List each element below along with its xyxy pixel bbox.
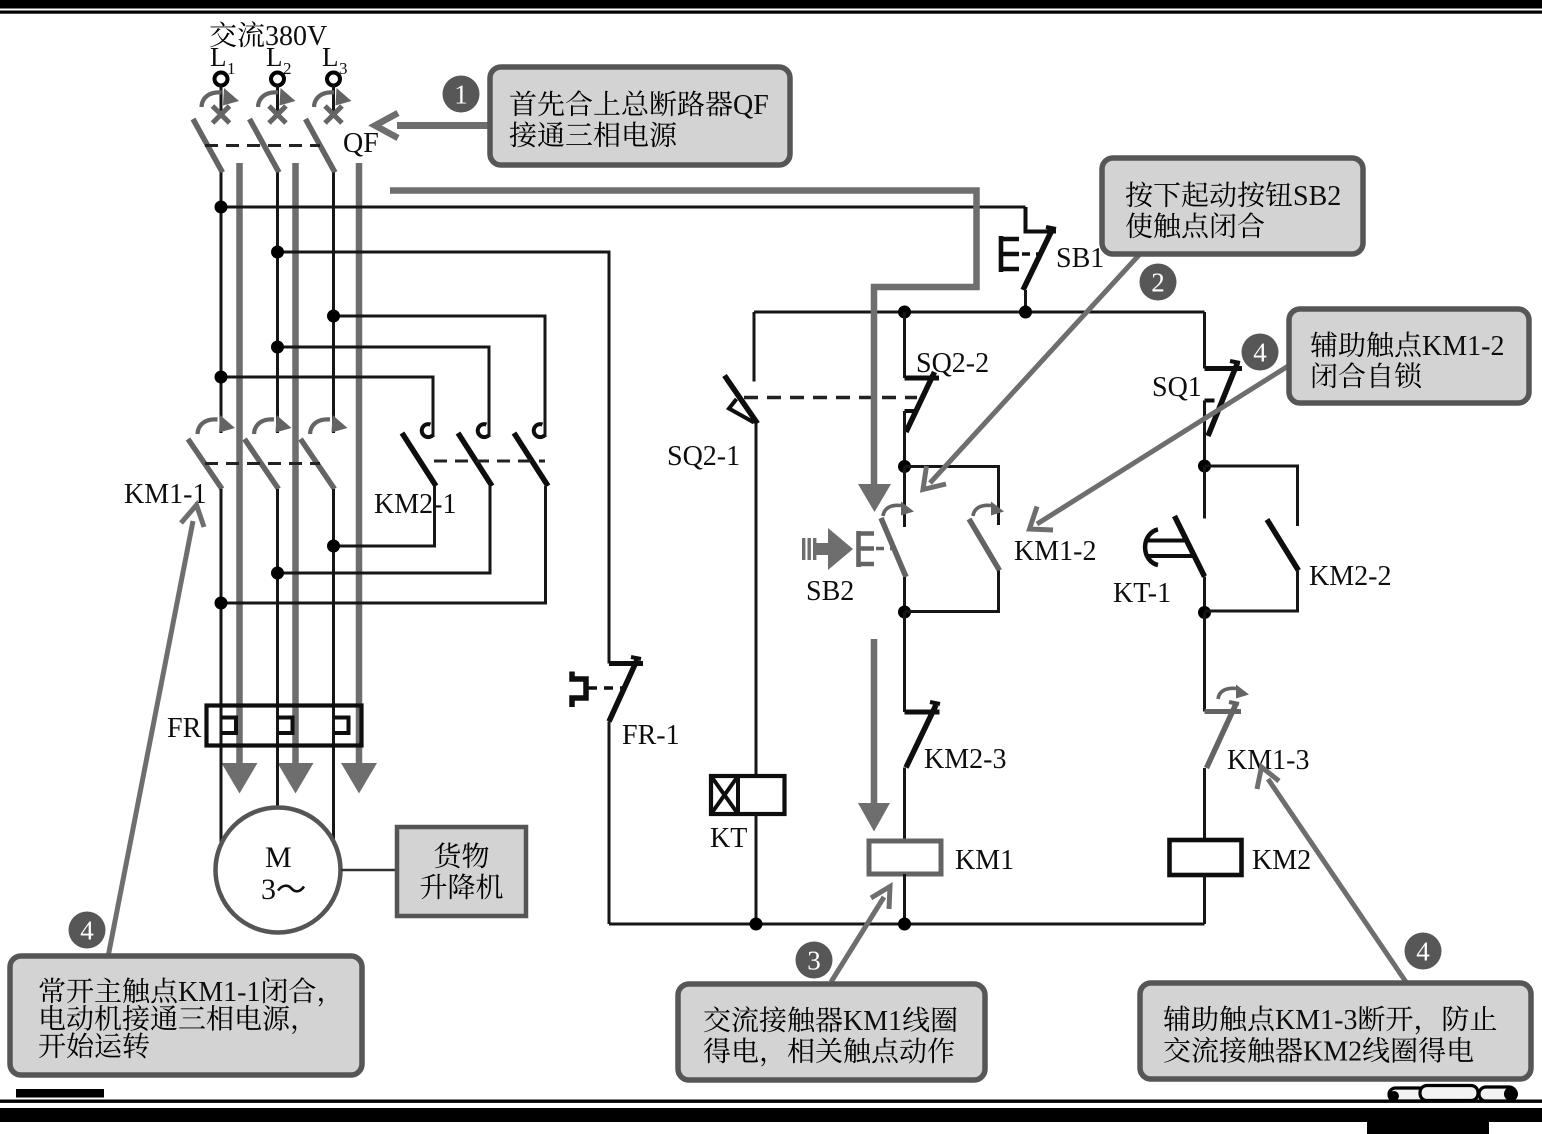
- label badge number 2 callout2: [1140, 264, 1177, 301]
- pushbutton SB2 press arrow: [802, 528, 853, 570]
- wire : top black bar: [0, 0, 1542, 9]
- wire : bottom rules and bar: [16, 1089, 104, 1098]
- svg-text:L: L: [322, 42, 339, 72]
- callout box 3 KM1 coil: [678, 984, 985, 1080]
- node : AC 380V supply label: [210, 21, 327, 52]
- wire grey highlighted current path x=295.5: [292, 163, 299, 766]
- wire L2 tap to FR-1 branch: [278, 252, 610, 664]
- wire grey highlighted current path x=239.5: [236, 163, 243, 766]
- svg-text:L: L: [210, 42, 227, 72]
- svg-text:3: 3: [807, 946, 821, 976]
- relay FR heater element x=277.5: [278, 718, 293, 734]
- node bottom rail KT branch: [750, 918, 763, 931]
- label badge number 1 callout1: [443, 76, 480, 113]
- wire L3 tap to KM2-1 pole3: [334, 316, 546, 437]
- svg-text:4: 4: [80, 916, 94, 946]
- svg-text:QF: QF: [733, 90, 769, 121]
- limit switch SQ2-1 (NO wedge): [725, 376, 758, 424]
- svg-text:SQ1: SQ1: [1152, 372, 1202, 403]
- arrow callout4-right to KM1-3: [1268, 779, 1406, 982]
- wire L1 terminal to QF: [220, 86, 223, 119]
- svg-text:KT-1: KT-1: [1113, 578, 1171, 609]
- relay FR heater element x=221: [221, 718, 236, 734]
- wire SQ2-1 to KT coil: [755, 424, 758, 777]
- svg-text:QF: QF: [343, 128, 379, 159]
- node rail junction SB1: [1019, 306, 1032, 319]
- svg-text:KM2: KM2: [1303, 1037, 1362, 1068]
- wire phase line below QF x=333.5: [332, 173, 335, 434]
- node junction L2 control tap: [271, 246, 284, 259]
- svg-text:KM2-2: KM2-2: [1309, 561, 1391, 592]
- decorative publisher logo: [1389, 1086, 1518, 1102]
- arrow callout1 to QF: [397, 122, 489, 129]
- coil KM1 contactor (energized): [869, 841, 941, 874]
- svg-text:4: 4: [1253, 338, 1267, 368]
- callout box 1 close QF: [490, 67, 790, 165]
- svg-text:KM1-2: KM1-2: [1014, 536, 1096, 567]
- wire KM2-1 pole1 output to L3: [334, 486, 435, 546]
- wire SQ2 mechanical link dashed: [744, 396, 917, 399]
- limit switch SQ2-2 (NC): [903, 312, 906, 378]
- node junction below SB2: [898, 606, 911, 619]
- wire L2 below KM1-1 to motor: [276, 489, 279, 807]
- svg-text:KT: KT: [710, 823, 747, 854]
- svg-text:KM2-3: KM2-3: [924, 744, 1006, 775]
- node junction on L2: [271, 567, 284, 580]
- relay FR thermal overload box: [207, 706, 362, 746]
- contactor KM1-1 main contacts: [188, 415, 348, 489]
- node junction below KT-1: [1198, 606, 1211, 619]
- contact KM1-3 interlock (NC, opening): [1203, 613, 1206, 712]
- svg-text:2: 2: [1151, 268, 1165, 298]
- contact KT-1 time delayed (NO): [1203, 466, 1206, 519]
- node L2 terminal: [266, 42, 292, 86]
- contactor KM2-1 main contacts: [402, 424, 548, 486]
- contact KM1-2 self-holding branch: [905, 467, 999, 526]
- callout box 4 KM1-2 latch: [1289, 309, 1529, 403]
- wire control top rail: [754, 311, 1205, 314]
- wire L3 below KM1-1 to motor: [332, 489, 335, 841]
- label badge number 4 callout4left: [69, 912, 106, 949]
- node junction L3 to KM2-1: [327, 310, 340, 323]
- svg-text:L: L: [266, 42, 283, 72]
- contact KM2-3 interlock (NC): [903, 612, 906, 712]
- svg-text:SB2: SB2: [1293, 181, 1341, 212]
- breaker QF pole closing mark at x=333.5: [325, 106, 342, 123]
- label badge number 3 callout3: [796, 942, 833, 979]
- svg-text:SQ2-1: SQ2-1: [667, 441, 740, 472]
- node junction L2 to KM2-1: [271, 341, 284, 354]
- wire phase line below QF x=277.5: [276, 173, 279, 434]
- label badge number 4 callout4top: [1242, 334, 1279, 371]
- svg-text:SB1: SB1: [1056, 243, 1104, 274]
- callout box 4 KM1-1 closes: [10, 956, 362, 1075]
- wire rail down to SQ1: [1203, 312, 1206, 369]
- arrow callout3 to KM1 coil: [831, 897, 884, 982]
- svg-text:SQ2-2: SQ2-2: [916, 348, 989, 379]
- label badge number 4 callout4right: [1405, 933, 1442, 970]
- svg-text:KM1-2: KM1-2: [1422, 331, 1504, 362]
- svg-text:SB2: SB2: [806, 576, 854, 607]
- svg-text:1: 1: [454, 80, 468, 110]
- breaker QF pole closing mark at x=277.5: [269, 106, 286, 123]
- relay FR heater element x=333.5: [334, 718, 349, 734]
- svg-text:KM2-1: KM2-1: [374, 489, 456, 520]
- callout box 2 press SB2: [1102, 158, 1363, 254]
- node L3 terminal: [322, 42, 348, 86]
- wire phase line below QF x=221: [220, 173, 223, 434]
- svg-text:KM2: KM2: [1252, 845, 1311, 876]
- wire grey path to KM1 coil: [871, 639, 878, 806]
- wire L2 terminal to QF: [276, 86, 279, 119]
- wire KM2-1 pole3 output to L1: [221, 486, 546, 603]
- svg-text:M: M: [265, 841, 292, 874]
- breaker QF pole closing mark at x=221: [213, 106, 230, 123]
- coil KT time relay: [711, 776, 785, 814]
- svg-text:FR-1: FR-1: [622, 720, 680, 751]
- svg-text:4: 4: [1416, 937, 1430, 967]
- svg-text:KM1-3: KM1-3: [1275, 1005, 1357, 1036]
- wire L1 tap to control circuit (SB1): [221, 206, 1026, 209]
- arrow callout4-left to KM1-1: [108, 521, 193, 957]
- load cargo-lift box: [397, 827, 526, 916]
- breaker QF blades: [193, 119, 223, 173]
- svg-text:KM1: KM1: [955, 845, 1014, 876]
- svg-text:KM1-1: KM1-1: [178, 977, 260, 1008]
- node rail junction SQ2-2: [898, 306, 911, 319]
- node junction above SB2: [898, 460, 911, 473]
- breaker QF linkage dashed: [205, 144, 320, 147]
- node bottom rail KM1 branch: [898, 918, 911, 931]
- wire grey highlighted current path x=359: [356, 163, 363, 766]
- contact KM2-2 parallel branch: [1205, 466, 1298, 526]
- wire grey path control circuit feed: [390, 191, 977, 488]
- wire rail down to SQ2-1: [753, 312, 756, 382]
- arrow callout4-top to KM1-2: [1037, 366, 1289, 525]
- wire motor link to load box: [341, 869, 397, 872]
- node junction on L3: [327, 540, 340, 553]
- arrow callout2 to SB2: [930, 255, 1139, 483]
- node L1 terminal: [210, 42, 236, 86]
- node junction above KT-1: [1198, 460, 1211, 473]
- svg-text:KM1: KM1: [843, 1006, 902, 1037]
- node junction on L1: [215, 597, 228, 610]
- wire KM2-1 pole2 output to L2: [278, 486, 491, 573]
- svg-text:FR: FR: [167, 713, 202, 744]
- pushbutton SB2 start (NO, pressed): [903, 467, 906, 528]
- limit switch SQ1 (NC): [1205, 366, 1243, 371]
- coil KM2 contactor: [1170, 840, 1242, 875]
- wire control bottom rail: [609, 923, 1205, 926]
- wire L3 terminal to QF: [332, 86, 335, 119]
- svg-text:3: 3: [261, 873, 276, 906]
- relay contact FR-1 (NC): [609, 661, 643, 666]
- node junction L1 control tap: [215, 201, 228, 214]
- wire L1 tap to KM2-1 pole1: [221, 377, 433, 437]
- callout box 4 KM1-3 opens: [1140, 983, 1531, 1079]
- wire L1 below KM1-1 to motor: [220, 489, 223, 843]
- pushbutton SB1 stop (NC): [1026, 207, 1057, 232]
- node junction L1 to KM2-1: [215, 371, 228, 384]
- wire L2 tap to KM2-1 pole2: [278, 347, 490, 437]
- motor M 3-phase: [216, 808, 341, 933]
